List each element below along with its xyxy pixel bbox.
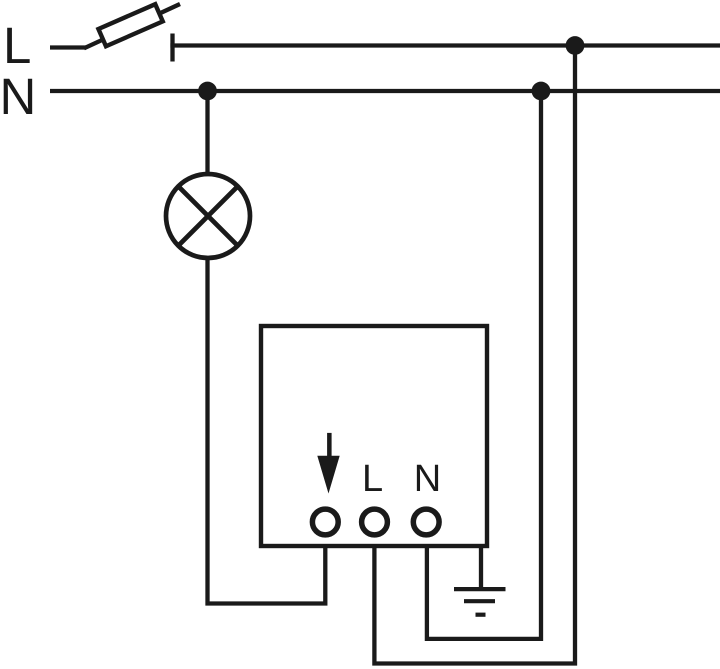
lamp E1 cross — [178, 186, 237, 245]
wire L stub — [50, 45, 86, 49]
switch fixed contact tick — [170, 34, 174, 62]
wire switch blade — [84, 4, 180, 48]
wire N feed to terminal N — [427, 91, 541, 639]
fuse F1 body — [98, 4, 162, 46]
ground symbol — [454, 589, 506, 615]
svg-text:N: N — [0, 68, 36, 125]
arrow (load output marker) — [317, 433, 339, 494]
node junction dot on N line (lamp tap) — [198, 82, 217, 101]
terminal circle N — [413, 509, 439, 535]
wire L feed to terminal L — [374, 46, 575, 664]
device box U1 — [261, 326, 487, 546]
wire lamp drop — [205, 91, 209, 174]
wire L line — [170, 43, 720, 47]
svg-text:L: L — [362, 458, 383, 500]
wire N line — [50, 89, 720, 93]
svg-text:L: L — [3, 17, 31, 74]
node junction dot on L line — [566, 36, 585, 55]
lamp E1 circle — [166, 174, 250, 258]
svg-text:N: N — [414, 458, 441, 500]
wire ground stem — [479, 546, 483, 589]
wire lamp to load terminal — [208, 257, 326, 604]
terminal circle (load) — [312, 509, 338, 535]
node junction dot on N line (device tap) — [532, 82, 551, 101]
terminal circle L — [362, 509, 388, 535]
